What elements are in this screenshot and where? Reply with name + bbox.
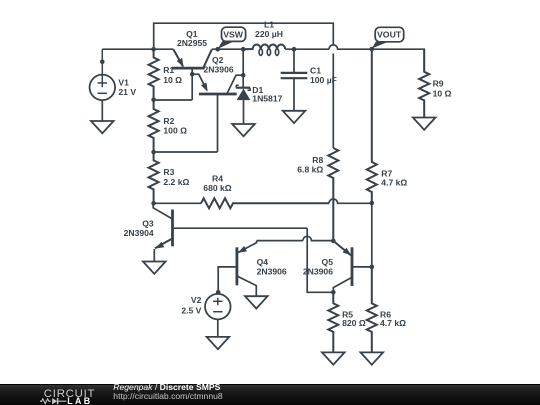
svg-text:220 µH: 220 µH [255, 29, 283, 39]
svg-text:100 µF: 100 µF [310, 75, 337, 85]
svg-text:R3: R3 [163, 167, 174, 177]
svg-text:680 kΩ: 680 kΩ [203, 183, 232, 193]
svg-text:R9: R9 [433, 78, 444, 88]
svg-text:10 Ω: 10 Ω [163, 75, 182, 85]
svg-text:R1: R1 [163, 65, 174, 75]
svg-text:R8: R8 [312, 155, 323, 165]
svg-text:R4: R4 [212, 173, 223, 183]
svg-text:2N3906: 2N3906 [257, 266, 287, 276]
svg-text:2N2955: 2N2955 [177, 38, 207, 48]
svg-text:Q4: Q4 [257, 257, 269, 267]
svg-text:4.7 kΩ: 4.7 kΩ [381, 178, 407, 188]
svg-text:VSW: VSW [223, 29, 244, 39]
svg-text:820 Ω: 820 Ω [342, 318, 366, 328]
svg-text:V2: V2 [191, 295, 202, 305]
svg-text:4.7 kΩ: 4.7 kΩ [380, 318, 406, 328]
svg-text:100 Ω: 100 Ω [163, 126, 187, 136]
svg-text:V1: V1 [118, 78, 129, 88]
svg-text:21 V: 21 V [118, 87, 136, 97]
svg-text:2N3906: 2N3906 [303, 267, 333, 277]
svg-text:Q5: Q5 [322, 257, 334, 267]
svg-text:Q3: Q3 [142, 218, 154, 228]
svg-text:R2: R2 [163, 116, 174, 126]
svg-text:6.8 kΩ: 6.8 kΩ [297, 164, 323, 174]
svg-text:1N5817: 1N5817 [252, 94, 282, 104]
svg-text:2.5 V: 2.5 V [181, 305, 201, 315]
svg-text:2N3904: 2N3904 [124, 228, 154, 238]
svg-text:Q2: Q2 [212, 55, 224, 65]
svg-text:VOUT: VOUT [377, 29, 402, 39]
svg-text:10 Ω: 10 Ω [433, 89, 452, 99]
svg-text:2.2 kΩ: 2.2 kΩ [163, 177, 189, 187]
svg-text:LAB: LAB [67, 396, 92, 405]
svg-text:2N3906: 2N3906 [204, 65, 234, 75]
